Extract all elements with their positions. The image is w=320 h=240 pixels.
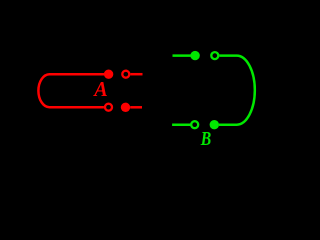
svg-text:B: B bbox=[200, 129, 211, 145]
svg-text:A: A bbox=[92, 77, 107, 101]
